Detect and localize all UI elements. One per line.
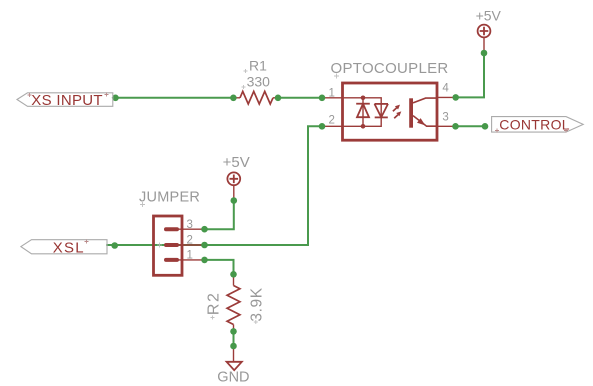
svg-text:2: 2 [187, 234, 193, 246]
svg-text:3.9K: 3.9K [249, 287, 266, 321]
svg-text:+5V: +5V [476, 7, 502, 23]
svg-text:R2: R2 [205, 291, 222, 315]
svg-text:XSL: XSL [53, 239, 85, 256]
svg-text:330: 330 [247, 73, 271, 89]
svg-text:3: 3 [442, 111, 448, 123]
svg-text:+5V: +5V [223, 154, 250, 171]
svg-text:OPTOCOUPLER: OPTOCOUPLER [331, 60, 449, 77]
svg-text:XS INPUT: XS INPUT [31, 92, 103, 109]
svg-text:1: 1 [187, 249, 193, 261]
svg-text:CONTROL: CONTROL [499, 117, 570, 133]
svg-text:2: 2 [329, 115, 335, 127]
svg-text:3: 3 [187, 219, 193, 231]
svg-text:GND: GND [217, 370, 249, 386]
svg-text:R1: R1 [249, 57, 267, 73]
svg-text:4: 4 [442, 82, 449, 94]
svg-text:JUMPER: JUMPER [139, 189, 200, 205]
svg-text:1: 1 [329, 87, 335, 99]
